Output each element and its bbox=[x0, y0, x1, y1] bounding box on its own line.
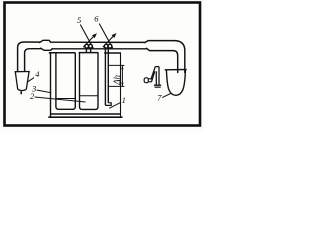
clamp 5 leader line bbox=[80, 25, 93, 49]
tube B right wall bbox=[107, 49, 109, 103]
sprayer foot bbox=[154, 85, 161, 87]
liquid level in C1 bbox=[56, 98, 75, 100]
tube B foot bend bbox=[105, 103, 111, 106]
svg-text:1: 1 bbox=[122, 95, 126, 105]
border frame bbox=[5, 3, 201, 126]
clamp 6 leader line bbox=[99, 24, 113, 49]
pipe middle bottom line bbox=[52, 48, 146, 50]
cylinder C1 body bbox=[56, 53, 75, 110]
clamp 6 arrowhead bbox=[112, 33, 117, 38]
bell 7 rim bbox=[165, 69, 187, 71]
tank rim segment middle bbox=[79, 52, 99, 54]
clamp 6 rollers bbox=[104, 44, 108, 48]
pipe left elbow and down tube outer line bbox=[18, 42, 40, 71]
tank rim segment right bbox=[104, 52, 121, 54]
svg-text:5: 5 bbox=[77, 15, 81, 25]
sprayer diagonal outer bbox=[151, 67, 155, 80]
hose connector left bottom bump bbox=[41, 48, 52, 50]
tank left outer wall bbox=[50, 53, 52, 117]
pipe middle top line bbox=[51, 41, 145, 43]
sprayer top bend bbox=[155, 66, 159, 68]
funnel 4 spout nub bbox=[20, 91, 22, 94]
cylinder C2 body bbox=[80, 53, 99, 110]
tank rim segment left bbox=[49, 52, 76, 54]
svg-text:6: 6 bbox=[94, 14, 99, 24]
tank bottom outer line bbox=[48, 116, 122, 118]
dim dh arrowhead up bbox=[121, 65, 123, 69]
hose connector left top bump bbox=[40, 40, 51, 42]
tube B left wall bbox=[104, 49, 106, 106]
liquid level in C2 bbox=[80, 95, 99, 97]
dim dh arrow line bbox=[121, 65, 123, 86]
pipe right elbow outer line bbox=[174, 41, 185, 73]
dim dh top tick bbox=[108, 64, 124, 66]
bell 7 cup body bbox=[166, 70, 185, 96]
sprayer vertical inner bbox=[155, 71, 157, 85]
funnel 4 cup bbox=[15, 72, 30, 91]
clamp 5 rollers bbox=[85, 44, 89, 48]
hose connector right top bump bbox=[145, 41, 174, 43]
neck under clamp 5 bbox=[86, 49, 90, 53]
clamp 5 arrowhead bbox=[92, 33, 97, 38]
label 7 leader bbox=[162, 93, 171, 98]
label 2 leader bbox=[35, 97, 86, 102]
clamp 6 arrow shaft bbox=[103, 36, 113, 47]
tank right wall bbox=[120, 53, 122, 117]
pipe right elbow inner line bbox=[173, 51, 178, 73]
svg-text:7: 7 bbox=[157, 93, 162, 103]
label 1 leader bbox=[109, 103, 120, 109]
svg-text:Δh: Δh bbox=[112, 75, 122, 86]
dim dh arrowhead down bbox=[121, 82, 123, 86]
tank bottom inner line bbox=[51, 113, 121, 115]
label 4 leader bbox=[28, 78, 34, 82]
svg-text:4: 4 bbox=[35, 69, 40, 79]
sprayer stem bottom bbox=[148, 81, 151, 83]
sprayer knob bbox=[144, 78, 148, 83]
dim dh bottom tick bbox=[108, 85, 124, 87]
hose connector right bottom bump bbox=[146, 48, 173, 50]
clamp 5 arrow shaft bbox=[83, 36, 93, 47]
pipe left elbow inner line bbox=[25, 49, 41, 72]
sprayer diagonal inner bbox=[151, 71, 154, 82]
sprayer stem top bbox=[148, 78, 152, 80]
sprayer vertical right bbox=[158, 67, 160, 86]
label 3 leader bbox=[37, 90, 52, 93]
